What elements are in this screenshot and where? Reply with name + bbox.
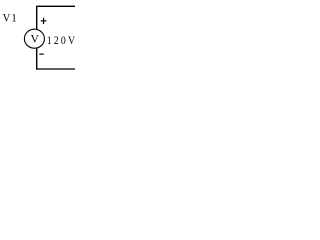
svg-text:V1: V1 [3, 12, 17, 24]
svg-text:V: V [31, 32, 40, 46]
svg-text:120V: 120V [47, 34, 75, 47]
